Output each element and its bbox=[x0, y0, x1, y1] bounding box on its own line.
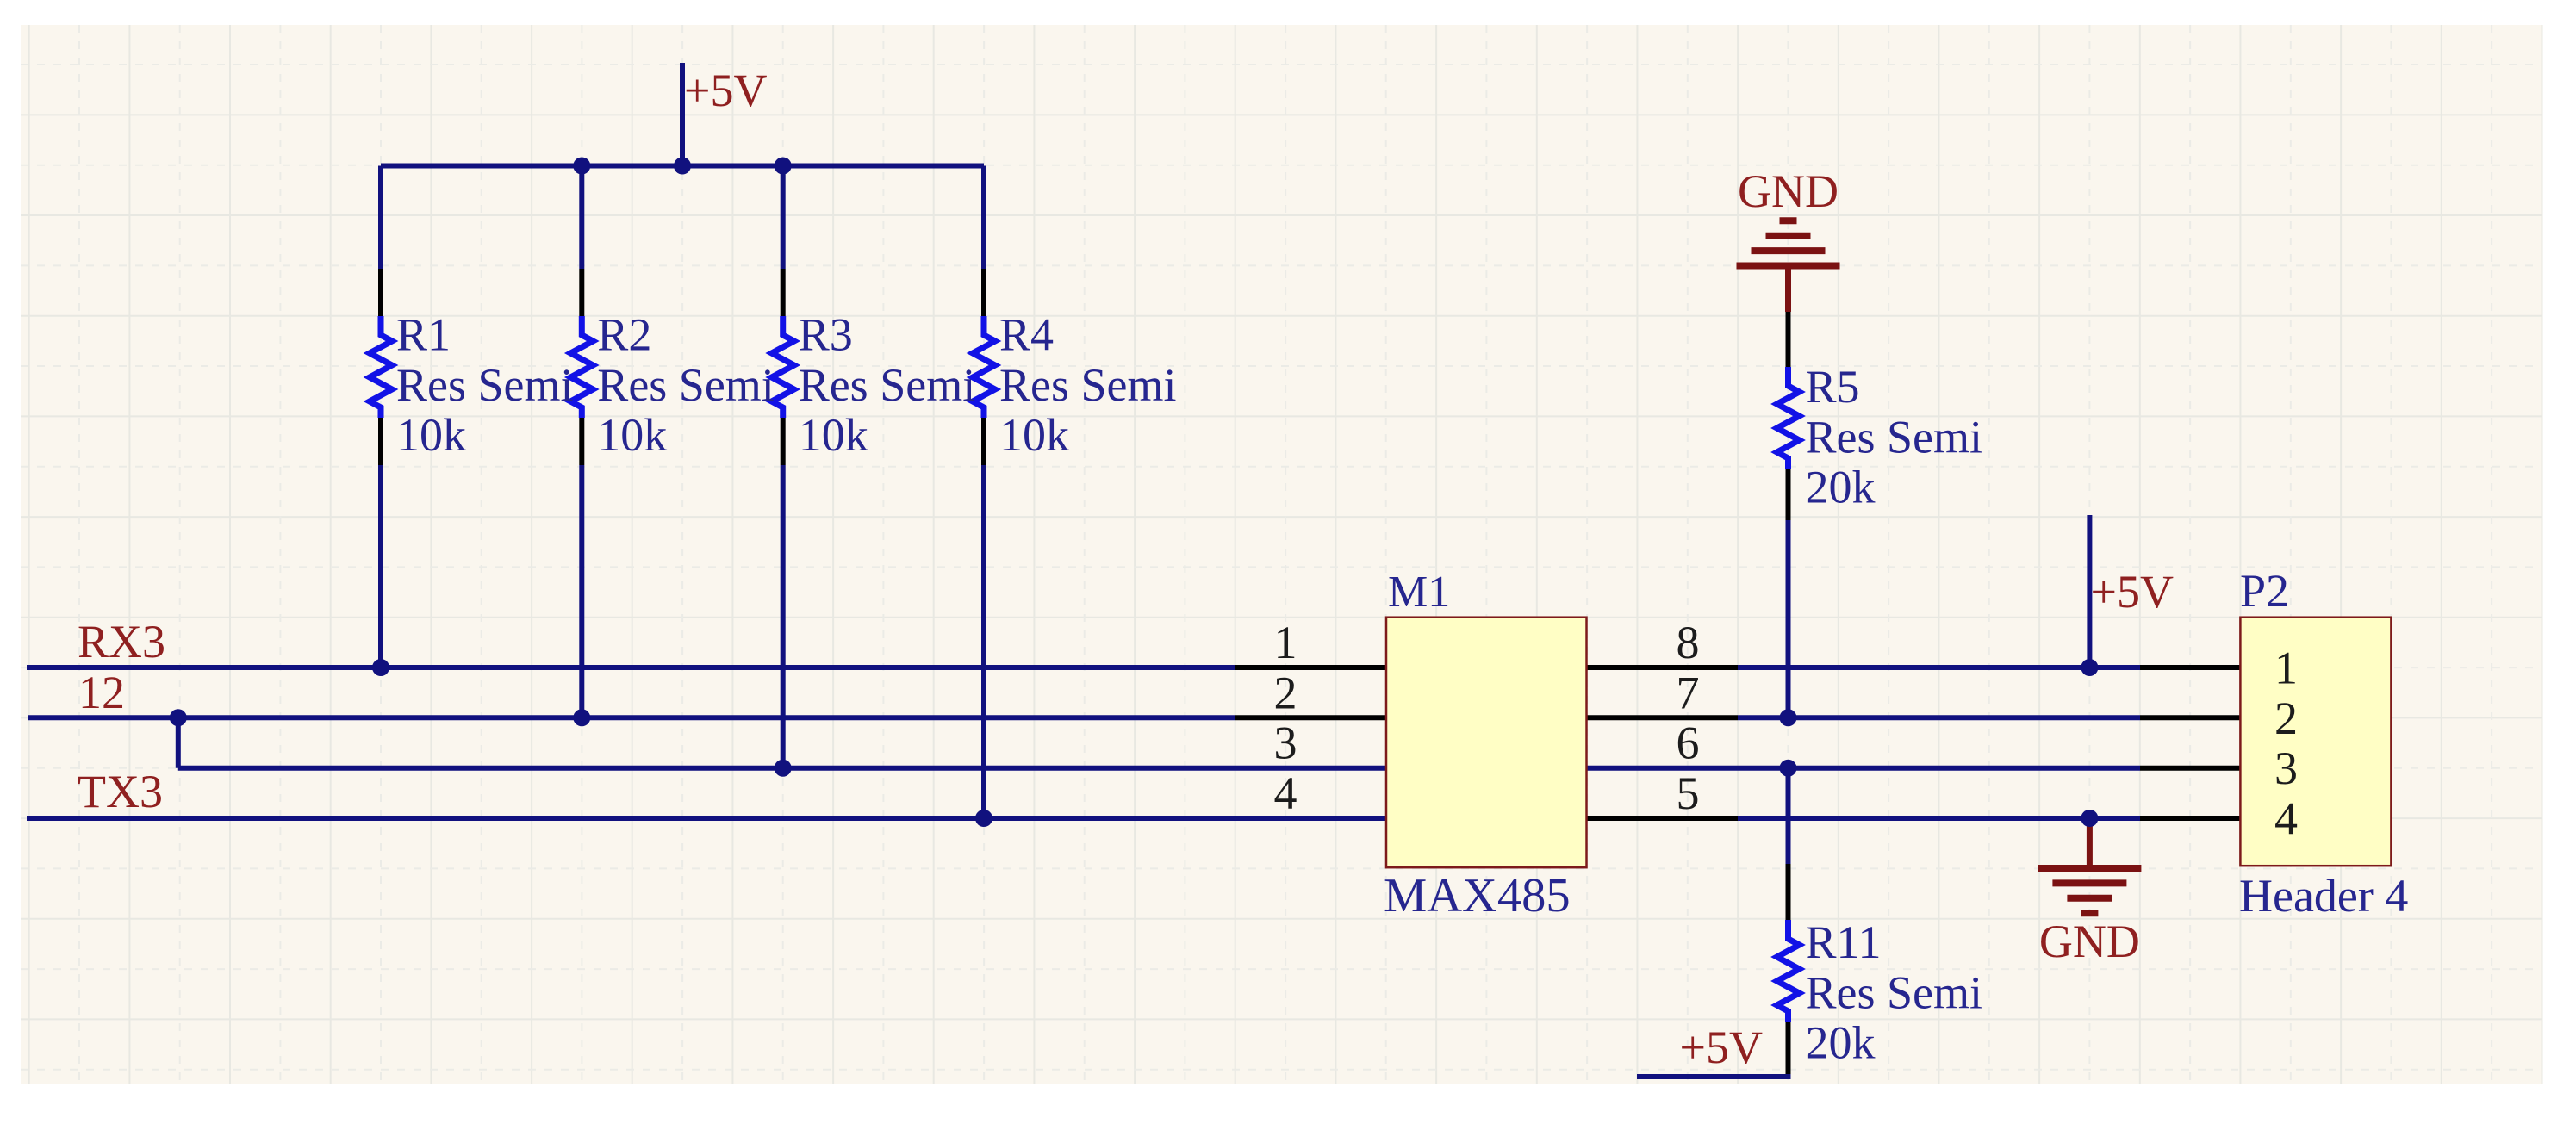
svg-text:M1: M1 bbox=[1388, 568, 1450, 617]
svg-text:3: 3 bbox=[1274, 717, 1297, 769]
svg-text:R4: R4 bbox=[999, 309, 1054, 361]
svg-text:Res Semi: Res Semi bbox=[999, 359, 1177, 411]
svg-text:Header 4: Header 4 bbox=[2239, 870, 2408, 922]
svg-text:8: 8 bbox=[1677, 617, 1700, 668]
svg-text:2: 2 bbox=[1274, 667, 1297, 718]
svg-text:GND: GND bbox=[2039, 916, 2140, 967]
svg-text:1: 1 bbox=[2274, 643, 2298, 694]
svg-text:4: 4 bbox=[1274, 767, 1297, 819]
svg-text:TX3: TX3 bbox=[78, 766, 163, 817]
svg-text:2: 2 bbox=[2274, 692, 2298, 744]
svg-text:R11: R11 bbox=[1806, 916, 1882, 968]
svg-text:R3: R3 bbox=[799, 309, 853, 361]
svg-text:+5V: +5V bbox=[1680, 1022, 1763, 1073]
svg-text:20k: 20k bbox=[1806, 1017, 1876, 1069]
svg-text:MAX485: MAX485 bbox=[1384, 869, 1571, 922]
svg-text:Res Semi: Res Semi bbox=[1806, 966, 1983, 1018]
svg-text:7: 7 bbox=[1677, 667, 1700, 718]
svg-text:Res Semi: Res Semi bbox=[799, 359, 976, 411]
svg-text:Res Semi: Res Semi bbox=[1806, 411, 1983, 463]
svg-text:1: 1 bbox=[1274, 617, 1297, 668]
svg-text:R1: R1 bbox=[396, 309, 451, 361]
svg-text:+5V: +5V bbox=[684, 65, 767, 116]
svg-text:RX3: RX3 bbox=[78, 616, 165, 668]
svg-text:10k: 10k bbox=[999, 409, 1069, 461]
svg-text:6: 6 bbox=[1677, 717, 1700, 769]
svg-text:R2: R2 bbox=[597, 309, 651, 361]
svg-text:Res Semi: Res Semi bbox=[396, 359, 574, 411]
svg-text:GND: GND bbox=[1738, 165, 1839, 217]
svg-text:+5V: +5V bbox=[2091, 566, 2174, 618]
svg-text:5: 5 bbox=[1677, 767, 1700, 819]
svg-text:R5: R5 bbox=[1806, 361, 1860, 413]
svg-text:Res Semi: Res Semi bbox=[597, 359, 775, 411]
svg-text:10k: 10k bbox=[396, 409, 466, 461]
svg-text:10k: 10k bbox=[597, 409, 667, 461]
svg-text:20k: 20k bbox=[1806, 462, 1876, 513]
svg-text:4: 4 bbox=[2274, 793, 2298, 845]
svg-text:12: 12 bbox=[78, 667, 125, 718]
svg-text:3: 3 bbox=[2274, 742, 2298, 794]
svg-text:P2: P2 bbox=[2240, 565, 2289, 617]
svg-text:10k: 10k bbox=[799, 409, 868, 461]
